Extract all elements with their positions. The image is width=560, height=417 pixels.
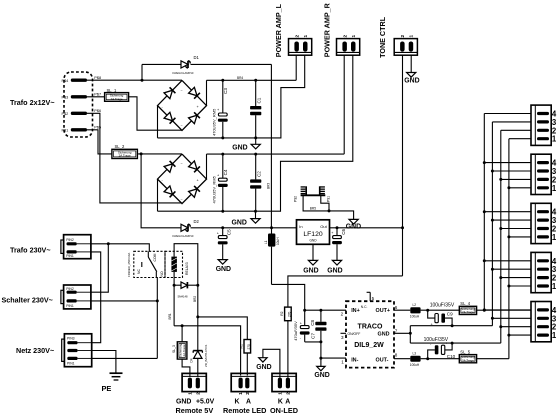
svg-text:8: 8 bbox=[395, 353, 398, 358]
svg-text:SL_3: SL_3 bbox=[172, 345, 176, 353]
bus vertical -12V bbox=[508, 139, 510, 359]
svg-text:Remote 5V: Remote 5V bbox=[176, 406, 214, 415]
svg-text:1: 1 bbox=[238, 392, 243, 395]
svg-text:SL_4: SL_4 bbox=[460, 301, 470, 306]
svg-text:100uF/35V: 100uF/35V bbox=[424, 337, 449, 343]
svg-text:C7: C7 bbox=[311, 333, 316, 339]
junction C4 top bbox=[221, 153, 224, 156]
wire D1 riser bbox=[141, 64, 143, 80]
ground under C5 bbox=[218, 260, 227, 265]
wire +5V to R2 bbox=[288, 276, 403, 307]
svg-text:GND: GND bbox=[216, 266, 231, 273]
svg-text:GND: GND bbox=[404, 77, 419, 84]
svg-text:2A Trage: 2A Trage bbox=[111, 97, 123, 101]
connector OUT3 bbox=[531, 203, 551, 243]
wire P$5 to SL_2 bbox=[87, 130, 112, 154]
relay coil (dashed box) bbox=[165, 251, 183, 277]
connector X1 Trafo 2x12V (dashed) bbox=[64, 72, 93, 137]
svg-text:A: A bbox=[285, 399, 290, 406]
wire Schalter PIN1 / Netz PIN1 / relay NO bbox=[91, 300, 157, 302]
junction C5 bbox=[221, 226, 224, 229]
connector OUT1 bbox=[531, 105, 551, 145]
svg-text:1: 1 bbox=[188, 392, 193, 395]
wire LF120 GND pin bbox=[312, 244, 314, 260]
trafo pin P$3/P$7 bbox=[71, 95, 87, 98]
svg-text:P$7: P$7 bbox=[94, 93, 101, 97]
svg-text:PIN3: PIN3 bbox=[67, 337, 75, 341]
svg-text:C1: C1 bbox=[257, 97, 262, 103]
svg-text:2: 2 bbox=[245, 392, 250, 395]
svg-text:2: 2 bbox=[342, 35, 347, 38]
inductor L1 10uH bbox=[271, 228, 273, 234]
svg-text:SL_2: SL_2 bbox=[115, 144, 125, 149]
trafo pin P$2/P$6 bbox=[71, 112, 87, 115]
svg-text:1: 1 bbox=[351, 35, 356, 38]
svg-text:P$2: P$2 bbox=[294, 196, 298, 202]
wire C10 to GND rail bbox=[445, 343, 452, 350]
svg-text:V-REG/CLAMP10: V-REG/CLAMP10 bbox=[172, 71, 194, 75]
svg-text:GND: GND bbox=[303, 267, 318, 274]
svg-text:P$1: P$1 bbox=[62, 129, 69, 133]
wire B2 minus lead bbox=[157, 179, 159, 211]
wire PA_L pin1 to GND rail bbox=[280, 55, 304, 138]
wire B2 plus rail bbox=[207, 153, 345, 155]
svg-text:2A Trage: 2A Trage bbox=[462, 359, 474, 363]
connector Trafo 230V bbox=[64, 235, 91, 259]
wire to Schalter PIN2 bbox=[91, 244, 108, 292]
svg-text:100uH: 100uH bbox=[410, 363, 420, 367]
fuse SL_3 bbox=[181, 326, 183, 342]
svg-text:RELA03: RELA03 bbox=[185, 262, 189, 275]
connector ON-LED bbox=[272, 373, 296, 391]
bridge rectifier B2 bbox=[158, 154, 207, 204]
wire L3 to SL_5 bbox=[421, 358, 460, 360]
zener diode D4 bbox=[197, 317, 199, 350]
svg-text:C3: C3 bbox=[223, 88, 228, 94]
svg-text:P$1: P$1 bbox=[326, 196, 330, 202]
junction BR2 bbox=[196, 315, 199, 318]
svg-text:470uF/35V: 470uF/35V bbox=[293, 321, 298, 341]
svg-text:1: 1 bbox=[552, 233, 557, 242]
wire D2 riser bbox=[141, 154, 180, 228]
junction C9/GND rail bbox=[451, 324, 454, 327]
svg-text:PIN1: PIN1 bbox=[66, 254, 74, 258]
wire B1 minus lead bbox=[157, 106, 159, 138]
wire SL_3 to GND pin bbox=[182, 359, 190, 377]
trafo pin P$1/P$5 bbox=[71, 128, 87, 131]
junction SL_3 top bbox=[181, 324, 184, 327]
bus vertical GND upper bbox=[491, 122, 493, 326]
wire B1 plus lead bbox=[206, 80, 208, 105]
svg-text:1: 1 bbox=[278, 392, 283, 395]
svg-text:C2: C2 bbox=[257, 171, 262, 177]
bus vertical GND lower bbox=[500, 130, 502, 343]
svg-text:GND: GND bbox=[314, 372, 329, 379]
svg-text:GND: GND bbox=[232, 145, 247, 152]
connector OUT5 bbox=[531, 302, 551, 342]
svg-text:1: 1 bbox=[552, 331, 557, 340]
svg-text:470U35V_RM5: 470U35V_RM5 bbox=[212, 175, 217, 203]
svg-text:In: In bbox=[299, 224, 302, 229]
wire B1 minus rail bbox=[158, 137, 281, 139]
junction C9 bbox=[426, 309, 429, 312]
capacitor C6 bbox=[336, 228, 338, 236]
svg-text:C4: C4 bbox=[223, 169, 228, 175]
svg-text:GND: GND bbox=[346, 224, 361, 231]
diode D2 bbox=[181, 224, 188, 231]
wire P$6 to B2 AC2 bbox=[87, 113, 182, 203]
TRACO pin 5 stub bbox=[369, 292, 371, 301]
svg-text:P$6: P$6 bbox=[94, 109, 101, 113]
svg-text:GND: GND bbox=[327, 267, 342, 274]
wire BR5 to GND bbox=[329, 211, 354, 220]
svg-text:6: 6 bbox=[395, 305, 398, 310]
connector Remote LED bbox=[231, 373, 255, 391]
svg-text:470U35V_RM5: 470U35V_RM5 bbox=[212, 108, 217, 136]
svg-text:2: 2 bbox=[195, 392, 200, 395]
svg-text:Netz 230V~: Netz 230V~ bbox=[16, 346, 54, 355]
svg-text:C10: C10 bbox=[447, 354, 456, 359]
svg-text:Out: Out bbox=[320, 224, 327, 229]
svg-text:POWER AMP_L: POWER AMP_L bbox=[274, 3, 283, 57]
svg-text:C8: C8 bbox=[310, 319, 315, 325]
junction C2 bottom / GND bbox=[254, 210, 257, 213]
wire BR1 rail bbox=[174, 326, 241, 376]
svg-text:POWER AMP_R: POWER AMP_R bbox=[322, 2, 331, 57]
svg-text:R1: R1 bbox=[240, 344, 244, 348]
jumper P$1 bbox=[319, 186, 321, 195]
svg-text:TRACO: TRACO bbox=[358, 323, 383, 330]
TRACO GND pin 7 wiring bbox=[394, 332, 410, 334]
svg-text:270: 270 bbox=[287, 311, 291, 317]
svg-text:2: 2 bbox=[341, 312, 344, 317]
junction SL_2 out / D2 branch bbox=[140, 152, 143, 155]
junction C2 top bbox=[254, 153, 257, 156]
svg-text:GND: GND bbox=[232, 220, 247, 227]
wire B2 plus lead bbox=[206, 154, 208, 179]
svg-text:OUT+: OUT+ bbox=[376, 308, 391, 314]
svg-text:K: K bbox=[235, 399, 240, 406]
wire R1 to Remote LED A bbox=[246, 353, 248, 376]
junction +12V bus bbox=[483, 309, 486, 312]
connector POWER AMP_R bbox=[337, 39, 360, 56]
svg-text:GND: GND bbox=[309, 238, 317, 242]
capacitor C10 100uF/35V bbox=[428, 350, 435, 359]
junction C3 bottom bbox=[221, 136, 224, 139]
junction C10/GND rail bbox=[451, 342, 454, 345]
svg-text:Remote LED: Remote LED bbox=[223, 406, 266, 415]
svg-text:BR4: BR4 bbox=[237, 76, 243, 80]
wire C7/C8 bottom rail bbox=[305, 341, 321, 343]
svg-text:1: 1 bbox=[552, 184, 557, 193]
svg-text:P$4: P$4 bbox=[62, 79, 69, 83]
svg-text:PE: PE bbox=[102, 384, 112, 393]
svg-text:GND: GND bbox=[378, 332, 390, 338]
svg-text:L1: L1 bbox=[264, 240, 268, 244]
svg-text:SL_5: SL_5 bbox=[460, 349, 470, 354]
wire BR2 rail to R1 bbox=[198, 317, 248, 340]
junction LF120 out / TONE bbox=[401, 226, 404, 229]
wire TONE pin2 to +5V rail bbox=[402, 55, 404, 276]
wire D1 to standby rail bbox=[270, 64, 272, 227]
wire SL_4 to +12V bus bbox=[477, 309, 531, 311]
wire coil bottom BR1 bbox=[173, 272, 175, 285]
capacitor C7 470uF/35V bbox=[304, 310, 306, 325]
connector Schalter 230V bbox=[64, 285, 91, 309]
jumper P$2 bbox=[305, 186, 307, 195]
wire B2 minus rail bbox=[158, 210, 281, 212]
ground under LF120 bbox=[308, 260, 317, 265]
wire ON-LED K to GND bbox=[263, 349, 280, 377]
svg-text:LF120: LF120 bbox=[303, 231, 322, 238]
wire SL_1 to B1 AC2 bbox=[129, 97, 182, 130]
capacitor C5 bbox=[222, 228, 224, 236]
svg-text:~: ~ bbox=[181, 89, 183, 93]
junction L1/D1 bbox=[270, 226, 273, 229]
connector Remote 5V bbox=[182, 373, 206, 391]
svg-text:~: ~ bbox=[181, 162, 183, 166]
svg-text:IN-: IN- bbox=[351, 357, 358, 363]
capacitor C9 100uF/35V bbox=[428, 310, 435, 318]
svg-text:GND: GND bbox=[176, 399, 191, 406]
junction TRACO IN+ / C7 bbox=[303, 309, 306, 312]
svg-text:TONE CTRL: TONE CTRL bbox=[378, 16, 387, 58]
junction C4 bottom bbox=[221, 210, 224, 213]
svg-text:1: 1 bbox=[409, 35, 414, 38]
svg-text:L2: L2 bbox=[413, 303, 417, 307]
svg-text:PIN2: PIN2 bbox=[66, 287, 74, 291]
capacitor C8 bbox=[320, 310, 322, 322]
svg-text:7: 7 bbox=[395, 328, 398, 333]
connector TONE CTRL bbox=[394, 39, 417, 56]
wire LF120 Out rail bbox=[330, 227, 403, 229]
junction Trafo230/Schalter bbox=[107, 242, 110, 245]
wire SL_5 to -12V bus bbox=[477, 358, 509, 360]
dc-dc converter U1 TRACO DIL9_2W (dashed) bbox=[346, 301, 394, 367]
svg-text:BR3: BR3 bbox=[267, 183, 271, 189]
svg-text:1: 1 bbox=[303, 35, 308, 38]
svg-text:BR1: BR1 bbox=[168, 313, 172, 319]
wire P$1 down bbox=[321, 195, 329, 211]
svg-text:+5.0V: +5.0V bbox=[196, 399, 215, 406]
ground at ON-LED bbox=[259, 358, 267, 362]
wire D2 to LF120 In bbox=[223, 227, 297, 229]
svg-text:BR2: BR2 bbox=[193, 296, 197, 302]
svg-text:SM4148: SM4148 bbox=[178, 294, 189, 298]
earth symbol PE bbox=[110, 372, 123, 374]
wire coil top to BR2 bbox=[174, 244, 198, 286]
diode D1 bbox=[142, 63, 181, 65]
wire D4 to +5.0V pin bbox=[197, 358, 199, 377]
junction C1 top bbox=[254, 79, 257, 82]
svg-text:COM: COM bbox=[153, 253, 157, 261]
svg-text:A: A bbox=[246, 399, 251, 406]
svg-text:K: K bbox=[278, 399, 283, 406]
capacitor C1 bbox=[255, 80, 257, 106]
capacitor C4 470U35V_RM5 bbox=[222, 154, 224, 178]
svg-text:C9: C9 bbox=[447, 311, 453, 316]
svg-text:3: 3 bbox=[341, 335, 344, 340]
connector OUT4 bbox=[531, 252, 551, 292]
svg-text:NO: NO bbox=[160, 271, 164, 276]
wire P$7 to SL_1 bbox=[87, 96, 105, 98]
svg-text:GND: GND bbox=[256, 364, 271, 371]
svg-text:100uH: 100uH bbox=[410, 314, 420, 318]
svg-text:PIN2: PIN2 bbox=[66, 238, 74, 242]
wire P$2 down to BR5 bbox=[303, 195, 329, 211]
relay lever bbox=[147, 251, 149, 257]
svg-text:FINDER_250V10A: FINDER_250V10A bbox=[127, 253, 131, 277]
svg-text:1: 1 bbox=[552, 282, 557, 291]
svg-text:C5: C5 bbox=[227, 229, 232, 235]
wire PA_R pin1 to B2 minus rail bbox=[280, 55, 353, 211]
ground at BR5 bbox=[349, 219, 358, 224]
svg-text:2: 2 bbox=[286, 392, 291, 395]
junction C6 bbox=[336, 226, 339, 229]
svg-text:P$2: P$2 bbox=[62, 112, 69, 116]
wire PA_R pin2 to B2 plus rail bbox=[343, 55, 345, 154]
voltage regulator LF120 bbox=[297, 220, 330, 245]
wire BR2 down bbox=[197, 285, 199, 317]
wire B1 plus rail BR4 bbox=[207, 79, 297, 81]
svg-text:P$3: P$3 bbox=[62, 96, 69, 100]
svg-text:270: 270 bbox=[247, 344, 251, 350]
svg-text:Trafo 230V~: Trafo 230V~ bbox=[10, 245, 51, 254]
wire Trafo230 PIN1 to Netz PIN3 bbox=[91, 252, 101, 343]
svg-text:2A Trage: 2A Trage bbox=[119, 154, 131, 158]
wire PA_L pin2 to V+ rail bbox=[295, 55, 297, 80]
junction BR5 bbox=[328, 209, 331, 212]
ground under C6 bbox=[332, 260, 341, 265]
svg-text:Schalter 230V~: Schalter 230V~ bbox=[2, 295, 53, 304]
svg-text:2A Trage: 2A Trage bbox=[182, 344, 186, 356]
wire lower GND rail bbox=[410, 342, 501, 344]
junction C3 top bbox=[221, 79, 224, 82]
TRACO pin 3 stub bbox=[341, 332, 347, 334]
wire SL_2 to B2 AC1 bbox=[137, 153, 182, 155]
svg-text:P$8: P$8 bbox=[94, 76, 101, 80]
svg-text:ON-LED: ON-LED bbox=[270, 406, 298, 415]
wire P$8 to B1 AC1 bbox=[87, 79, 182, 81]
resistor R2 bbox=[285, 307, 292, 321]
junction C10 branch bbox=[426, 357, 429, 360]
svg-text:R2: R2 bbox=[280, 311, 284, 315]
svg-text:PIN1: PIN1 bbox=[67, 362, 75, 366]
wire Trafo230 PIN2 to relay COM bbox=[91, 244, 149, 252]
capacitor C3 470U35V_RM5 bbox=[222, 80, 224, 113]
diode D3 flyback bbox=[173, 284, 176, 287]
svg-text:~: ~ bbox=[181, 198, 183, 202]
svg-text:N.C.: N.C. bbox=[361, 305, 368, 309]
svg-text:ON/OFF: ON/OFF bbox=[348, 332, 361, 336]
svg-text:10uH: 10uH bbox=[276, 237, 280, 245]
svg-text:2: 2 bbox=[400, 35, 405, 38]
resistor R1 bbox=[244, 340, 251, 354]
relay K1 contact (dashed box) bbox=[134, 251, 165, 277]
connector POWER AMP_L bbox=[289, 39, 312, 56]
bus wires to connector 1 bbox=[484, 113, 531, 115]
bridge rectifier B1 bbox=[158, 80, 207, 130]
svg-text:1: 1 bbox=[552, 135, 557, 144]
svg-text:BR5: BR5 bbox=[310, 207, 316, 211]
ground at B1 minus bbox=[255, 138, 257, 144]
wire upper GND rail bbox=[410, 325, 492, 327]
inductor L2 100uH bbox=[394, 309, 410, 311]
wire C9 to GND rail bbox=[445, 318, 452, 326]
wire jumper base bar bbox=[301, 194, 326, 196]
junction P$8/D1 bbox=[141, 79, 144, 82]
bus vertical +12V bbox=[483, 114, 485, 311]
junction C1 bottom / GND bbox=[254, 136, 257, 139]
svg-text:NC: NC bbox=[137, 269, 141, 274]
svg-text:ZD_BZX55-C5V1: ZD_BZX55-C5V1 bbox=[204, 344, 208, 367]
svg-text:D2: D2 bbox=[194, 219, 200, 224]
svg-text:OUT-: OUT- bbox=[376, 357, 389, 363]
svg-text:5: 5 bbox=[372, 296, 375, 301]
svg-text:2: 2 bbox=[294, 35, 299, 38]
trafo pin P$4/P$8 bbox=[71, 79, 87, 82]
svg-text:IN+: IN+ bbox=[351, 308, 360, 314]
connector OUT2 bbox=[531, 154, 551, 194]
ground under TRACO IN- bbox=[320, 358, 322, 366]
svg-text:L3: L3 bbox=[413, 351, 417, 355]
wire R2 to ON-LED A bbox=[287, 321, 289, 378]
wire Netz PIN2 to PE bbox=[92, 351, 116, 374]
inductor L3 100uH bbox=[394, 358, 410, 360]
wire to TRACO IN- bbox=[320, 342, 322, 358]
svg-text:D4: D4 bbox=[190, 358, 194, 362]
wire L1 to TRACO IN+ bbox=[272, 284, 347, 310]
svg-text:PIN1: PIN1 bbox=[66, 304, 74, 308]
svg-text:100uF/35V: 100uF/35V bbox=[430, 302, 455, 308]
connector Netz 230V bbox=[64, 334, 91, 367]
svg-text:2A Trage: 2A Trage bbox=[462, 310, 474, 314]
ground at TONE CTRL pin1 bbox=[410, 55, 412, 72]
svg-text:V-REG/CLAMP10: V-REG/CLAMP10 bbox=[172, 234, 194, 238]
svg-text:~: ~ bbox=[181, 124, 183, 128]
svg-text:DIL9_2W: DIL9_2W bbox=[354, 342, 384, 349]
ground at B2 minus bbox=[255, 211, 257, 218]
svg-text:D1: D1 bbox=[194, 55, 200, 60]
wire L2 to SL_4 bbox=[421, 309, 460, 311]
svg-text:Trafo 2x12V~: Trafo 2x12V~ bbox=[10, 98, 55, 107]
capacitor C2 bbox=[255, 154, 257, 179]
svg-text:1: 1 bbox=[341, 360, 344, 365]
